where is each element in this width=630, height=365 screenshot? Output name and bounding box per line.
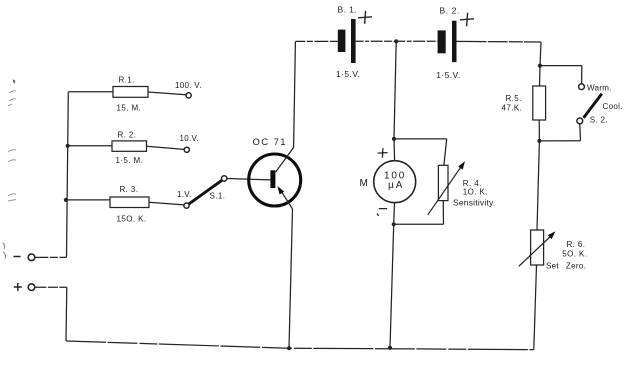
svg-text:10.V.: 10.V. [180,134,199,143]
wire [394,223,444,225]
svg-text:Sensitivity.: Sensitivity. [453,197,495,207]
svg-text:1O. K.: 1O. K. [463,187,488,196]
wire [534,265,537,350]
wire [65,287,68,341]
wire [579,124,582,141]
wire [537,141,539,230]
resistor R5 [533,86,546,120]
switch S1 lever [189,180,222,204]
wire [227,179,270,180]
stray mark [8,194,16,201]
wire [66,199,110,201]
switch S2 lever [584,94,602,118]
svg-text:1·5. M.: 1·5. M. [116,156,144,165]
resistor R4 [438,165,448,200]
node R3 junction [64,198,68,202]
wire [540,42,541,66]
wire [457,40,542,43]
R4 arrow [428,166,462,215]
meter M body [374,161,416,203]
svg-text:100. V.: 100. V. [175,81,202,90]
switch S1 contact [222,176,227,181]
wire [393,139,396,161]
switch S2 warm contact [579,84,585,90]
node rail junction [287,346,291,350]
switch S2 contact [577,118,583,124]
resistor R6 [531,230,544,265]
svg-text:B. 1.: B. 1. [338,4,357,14]
R6 arrowhead [548,231,556,239]
svg-text:µA: µA [388,180,404,191]
meter plus label [378,148,388,158]
wire [390,224,394,347]
svg-text:5O. K.: 5O. K. [562,249,587,258]
positive input terminal [28,284,35,291]
battery B1 positive plate [351,19,356,63]
svg-text:R. 6.: R. 6. [567,240,586,249]
battery B1 negative plate [338,30,346,52]
wire [442,201,444,225]
transistor emitter arrow [277,186,284,194]
minus label [14,256,21,258]
resistor R3 [110,197,149,208]
svg-text:B. 2.: B. 2. [440,5,460,15]
battery B2 positive plate [452,21,457,62]
wire [66,341,534,350]
node rail meter junction [388,346,392,350]
battery B2 negative plate [438,30,446,53]
wire [581,66,583,84]
wire emitter down [289,209,293,348]
wire [538,120,540,141]
svg-text:1·5.V.: 1·5.V. [336,69,360,79]
wire [34,286,66,288]
terminal 10V [184,147,189,152]
battery B2 plus sign [460,13,474,26]
node meter bottom junction [392,222,396,226]
wire [444,139,447,165]
svg-text:OC 71: OC 71 [253,137,287,148]
wire collector up [294,42,296,148]
svg-text:R.1.: R.1. [119,76,135,85]
svg-text:S.1.: S.1. [210,191,226,200]
transistor collector line [276,148,294,173]
wire [34,256,66,258]
resistor R2 [112,141,147,151]
svg-text:R. 3.: R. 3. [120,185,139,194]
stray mark [13,79,16,84]
svg-text:1·5.V.: 1·5.V. [436,70,460,80]
plus label [14,283,22,291]
svg-text:M: M [360,178,369,189]
node meter top junction [392,137,396,141]
svg-text:47.K.: 47.K. [502,103,523,112]
wire [68,145,112,147]
R4 arrowhead [458,161,465,169]
transistor emitter line [281,191,292,209]
R6 arrow [519,235,552,266]
wire [356,40,397,42]
wire [68,91,113,93]
wire [393,203,396,225]
svg-text:15O. K.: 15O. K. [117,214,147,223]
svg-text:15. M.: 15. M. [117,104,142,113]
svg-text:S. 2.: S. 2. [590,116,608,125]
stray mark [8,91,16,106]
svg-text:R.5.: R.5. [506,94,522,103]
wire [149,202,184,205]
svg-text:SetZero.: SetZero. [546,262,586,271]
terminal 100V [186,93,191,98]
wire [67,92,69,258]
wire [148,92,186,95]
wire [394,41,396,139]
transistor Q1 OC71 body [249,154,301,206]
stray mark [3,243,6,259]
transistor base bar [270,170,275,188]
svg-text:R. 2.: R. 2. [118,131,137,140]
node R5 bottom junction [537,139,541,143]
node R5 top junction [538,64,542,68]
wire [147,146,185,149]
svg-text:Warm.: Warm. [587,84,612,93]
terminal 1V switch contact [184,203,189,208]
svg-text:1.V.: 1.V. [177,190,192,199]
resistor R1 [113,87,148,98]
wire [539,140,580,142]
stray mark [8,150,16,162]
wire [295,40,337,42]
wire [539,66,542,86]
node R2 junction [66,144,70,148]
node battery junction [394,39,398,43]
wire [394,138,447,140]
battery B1 plus sign [358,11,372,24]
svg-text:Cool.: Cool. [603,102,623,111]
meter minus label [377,209,387,216]
wire [396,40,437,42]
negative input terminal [28,254,35,261]
wire [540,65,582,67]
